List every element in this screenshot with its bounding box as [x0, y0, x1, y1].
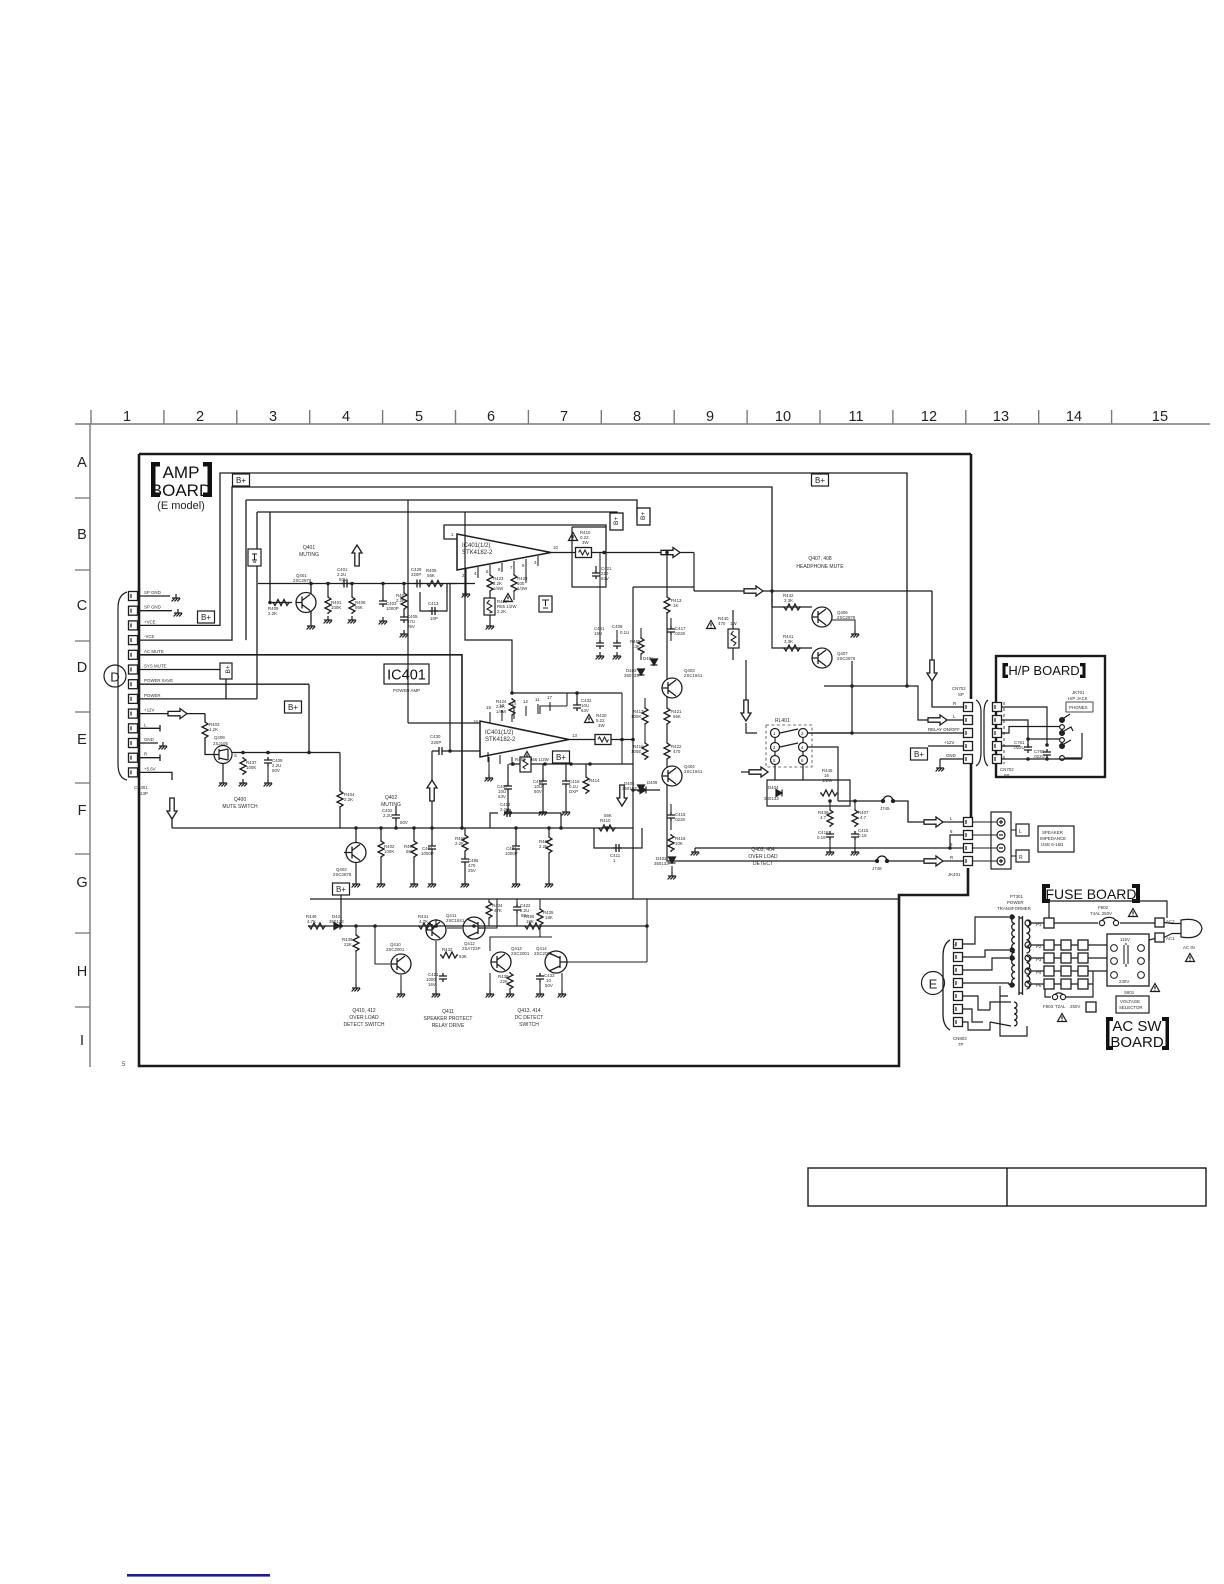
svg-text:4.7K: 4.7K: [419, 919, 428, 924]
svg-text:.0228: .0228: [674, 817, 686, 822]
wire SP GND 1: [138, 595, 170, 597]
svg-text:22K: 22K: [500, 979, 508, 984]
wire hp-relay junction: [824, 686, 963, 720]
pin 12 R: [129, 753, 138, 762]
svg-text:C: C: [77, 598, 87, 614]
svg-text:1/4W: 1/4W: [493, 586, 504, 591]
svg-text:SYS MUTE: SYS MUTE: [144, 664, 167, 669]
svg-text:B: B: [77, 527, 87, 543]
ground C418: [826, 848, 835, 855]
pin 13 +5.6V: [129, 768, 138, 777]
wire R434 col: [488, 899, 490, 926]
svg-text:.0228: .0228: [674, 631, 686, 636]
ground C451: [596, 652, 605, 659]
svg-text:STK4182-2: STK4182-2: [462, 550, 493, 556]
feedback loop R410: [572, 527, 606, 587]
P labels: [1036, 922, 1042, 988]
transformer T301: [1019, 916, 1023, 995]
rotated B+ box 2: [637, 508, 650, 525]
capacitor C429 220P: [414, 580, 423, 588]
wire R out 861: [820, 860, 963, 862]
resistor R402 100K: [380, 828, 382, 840]
R tag box: [1016, 850, 1029, 862]
svg-text:350133: 350133: [329, 919, 344, 924]
svg-text:.022U: .022U: [1033, 754, 1045, 759]
resistor R424 2.2K: [509, 698, 515, 716]
wire arrow to bus: [431, 751, 433, 828]
resistor R435 18K: [537, 908, 543, 926]
B+ box row G: [333, 883, 350, 895]
wire P3 row: [1031, 957, 1107, 959]
diode D402: [669, 857, 676, 863]
svg-text:15U: 15U: [594, 631, 602, 636]
svg-text:B+: B+: [640, 512, 647, 520]
wire R404 drop: [339, 808, 341, 828]
pin 3: [954, 992, 963, 1001]
svg-text:+12V: +12V: [144, 708, 154, 713]
op-amp IC401 1/2 lower: [480, 721, 569, 757]
wire plug: [1164, 923, 1172, 938]
wire R pin: [932, 591, 963, 707]
svg-text:B+: B+: [225, 665, 232, 673]
transistor Q406: [812, 607, 832, 627]
connector CN401 bracket: [118, 592, 127, 780]
resistor R417 100K: [642, 707, 648, 725]
transistor Q414: [545, 951, 567, 973]
B+ label mid: [285, 701, 302, 713]
svg-text:OVER LOAD: OVER LOAD: [748, 854, 778, 860]
resistor R465 2.2K: [548, 828, 550, 836]
wire POWER SAVE: [138, 684, 309, 752]
svg-text:IC401(1/2): IC401(1/2): [462, 543, 490, 549]
wire hp pin3: [1002, 727, 1060, 734]
wire +12V run: [138, 714, 214, 755]
warning small: [504, 594, 513, 602]
svg-text:R410: R410: [600, 818, 611, 823]
bracket CN702 amp: [976, 700, 981, 766]
wire pin1 loop: [444, 525, 606, 553]
HP pins: [993, 703, 1002, 712]
wire R495: [542, 899, 647, 926]
pins: [964, 818, 973, 827]
wire spk R path: [667, 856, 820, 861]
svg-text:2SC2876: 2SC2876: [837, 656, 856, 661]
B+ relay: [911, 748, 928, 760]
boxed icon d1: [539, 596, 552, 612]
title FUSE BOARD: [1042, 884, 1140, 903]
svg-text:9: 9: [706, 409, 714, 425]
wire AC MUTE bus: [138, 655, 462, 828]
diode D403: [638, 669, 645, 675]
ground C403: [379, 617, 388, 624]
svg-text:50V: 50V: [534, 789, 542, 794]
wire Q409 drain: [222, 764, 224, 780]
arrow down R: [927, 660, 937, 681]
pin 5 AC MUTE: [129, 650, 138, 659]
B+ label box on +VCE: [198, 611, 215, 623]
svg-text:Q413, 414: Q413, 414: [517, 1008, 541, 1014]
svg-text:POWER SAVE: POWER SAVE: [144, 678, 173, 683]
resistor R407 2.2K: [403, 584, 405, 593]
svg-text:R: R: [953, 701, 956, 706]
svg-text:2.2K: 2.2K: [455, 841, 464, 846]
svg-text:R: R: [144, 752, 147, 757]
ground Q414: [558, 990, 567, 997]
wire row G 899: [310, 898, 899, 900]
fusible resistor R425: [484, 598, 495, 615]
svg-text:0.18: 0.18: [817, 835, 826, 840]
svg-text:2SC1841: 2SC1841: [684, 769, 703, 774]
arrow L feed: [924, 817, 943, 827]
B+ box lower: [553, 751, 570, 763]
svg-text:2SC2878: 2SC2878: [333, 872, 352, 877]
pin AC2: [1155, 918, 1164, 927]
svg-text:PHONES: PHONES: [1069, 705, 1088, 710]
loop R410b 56K: [594, 828, 642, 848]
pin 9 +12V: [129, 709, 138, 718]
wire hp pin2: [1002, 739, 1060, 748]
resistor R410b: [598, 825, 616, 831]
wire pin outputs join: [514, 572, 526, 600]
wire rail 764: [509, 763, 633, 765]
transformer terminals right: [1025, 920, 1031, 987]
svg-text:D401: D401: [643, 656, 654, 661]
svg-text:T2AL: T2AL: [1055, 1004, 1066, 1009]
wire Q402 emitter: [355, 863, 357, 880]
wire strip to tags: [1011, 830, 1016, 856]
capacitor C484 1000P: [515, 828, 517, 843]
svg-text:16V: 16V: [428, 982, 436, 987]
terminal circles: [997, 818, 1005, 865]
node base: [268, 601, 272, 605]
svg-text:1: 1: [123, 409, 131, 425]
resistor R428 100: [511, 574, 517, 592]
PHONES box: [1066, 702, 1093, 712]
capacitor C401 2.2U: [341, 580, 350, 588]
capacitor C405 47U: [403, 610, 405, 614]
svg-text:2SA723P: 2SA723P: [462, 946, 481, 951]
resistor R408 56K: [351, 584, 353, 597]
svg-text:10P: 10P: [430, 616, 438, 621]
resistor R418 100E: [642, 742, 648, 760]
wire P4 row: [1031, 970, 1107, 972]
svg-text:6: 6: [487, 409, 495, 425]
wire C422 col: [516, 899, 518, 926]
resistor R413 1K: [664, 596, 670, 614]
relay contacts: [771, 729, 808, 765]
speaker impedance box: [1038, 826, 1074, 852]
row letters: [76, 455, 87, 1049]
warning R456: [523, 752, 532, 760]
svg-text:POWER AMP: POWER AMP: [393, 688, 420, 693]
arrow +12V: [168, 709, 187, 719]
svg-text:STK4182-2: STK4182-2: [485, 737, 516, 743]
wire to amp pin1: [447, 584, 457, 593]
svg-text:P2: P2: [1036, 944, 1042, 949]
wire 622 drop: [621, 693, 623, 764]
svg-text:TRANSFORMER: TRANSFORMER: [997, 906, 1031, 911]
svg-text:.022U: .022U: [1013, 745, 1025, 750]
fusible resistor R456: [520, 757, 531, 772]
svg-text:220P: 220P: [411, 572, 421, 577]
wire Q411 area: [436, 919, 474, 928]
wire bus 828: [172, 827, 633, 829]
svg-text:18K: 18K: [545, 915, 553, 920]
svg-text:1/4W: 1/4W: [517, 586, 528, 591]
svg-text:JK701: JK701: [1072, 690, 1085, 695]
pin 1: [954, 1018, 963, 1027]
ground Q401: [307, 622, 316, 629]
wire relay left drop: [775, 765, 803, 780]
svg-text:11: 11: [535, 697, 540, 702]
wire R440 col: [732, 610, 734, 660]
svg-text:D404: D404: [768, 785, 779, 790]
ground SP GND1: [172, 594, 181, 601]
svg-text:AMP: AMP: [163, 463, 200, 482]
svg-text:2.2K: 2.2K: [396, 598, 405, 603]
wire Q401 collector: [310, 584, 312, 595]
svg-text:3: 3: [269, 409, 277, 425]
svg-text:B+: B+: [613, 517, 620, 525]
svg-text:470: 470: [673, 749, 681, 754]
arrow down col 746: [741, 700, 751, 721]
wire col 746: [746, 660, 757, 733]
wire relay in top: [807, 661, 852, 733]
svg-text:GND: GND: [946, 753, 956, 758]
ground C404: [428, 880, 437, 887]
resistor R434 47K: [486, 901, 492, 919]
wire hp pin5: [1002, 707, 1047, 745]
svg-text:115V: 115V: [1120, 937, 1130, 942]
svg-text:OVER LOAD: OVER LOAD: [349, 1015, 379, 1021]
svg-text:2.2K: 2.2K: [539, 844, 548, 849]
capacitor C412: [504, 809, 513, 817]
ground R465: [545, 880, 554, 887]
transformer terminals left: [1010, 915, 1014, 987]
wire hp pin1: [1002, 758, 1082, 760]
svg-text:S801: S801: [1124, 990, 1135, 995]
svg-text:56K: 56K: [355, 605, 363, 610]
terminal strip: [991, 812, 1011, 869]
resistor R442 3.3K: [783, 604, 801, 610]
node out: [631, 738, 635, 742]
ground C408: [613, 652, 622, 659]
svg-text:22K: 22K: [344, 942, 352, 947]
B+ label box top right: [812, 474, 829, 486]
resistor R438 22K: [507, 972, 513, 990]
node hp: [1026, 737, 1030, 741]
ground C409: [264, 779, 273, 786]
wire Q409 right: [232, 753, 340, 791]
pin 6 SYS MUTE: [129, 665, 138, 674]
pin 10 L: [129, 724, 138, 733]
diode D409: [640, 787, 646, 794]
wire mid vertical 408: [407, 500, 409, 723]
svg-text:2SC2878: 2SC2878: [293, 578, 312, 583]
svg-text:10: 10: [775, 409, 791, 425]
svg-text:SPEAKER: SPEAKER: [1042, 830, 1063, 835]
resistor R401 100K: [327, 584, 329, 597]
jumper J745: [880, 796, 896, 803]
svg-text:MUTING: MUTING: [299, 552, 319, 558]
svg-text:4.7: 4.7: [860, 815, 867, 820]
jack contacts: [1060, 714, 1082, 760]
svg-text:VOLTAGE: VOLTAGE: [1120, 999, 1140, 1004]
capacitor C451: [599, 553, 601, 641]
ground Q411: [432, 990, 441, 997]
resistor R403 1.2K: [202, 721, 208, 739]
capacitor C761: [1024, 744, 1032, 753]
warning R440: [707, 621, 716, 629]
resistor R495 18K: [524, 923, 542, 929]
svg-text:Q400: Q400: [234, 797, 246, 803]
ruler numbers: [123, 409, 1168, 425]
signal labels: [950, 816, 953, 860]
wire SP GND 2: [138, 610, 172, 612]
svg-text:SELECTOR: SELECTOR: [1119, 1005, 1143, 1010]
wire mid vertical 465: [465, 512, 512, 693]
svg-text:R414: R414: [589, 778, 600, 783]
svg-text:Q401: Q401: [303, 545, 315, 551]
svg-text:IMPEDANCE: IMPEDANCE: [1040, 836, 1066, 841]
title AC SW BOARD: [1106, 1017, 1169, 1051]
svg-text:63V: 63V: [581, 708, 589, 713]
wire gnd 848: [695, 835, 963, 848]
H/P board outline: [996, 656, 1105, 777]
svg-text:I: I: [80, 1033, 84, 1049]
ground Q413: [486, 990, 495, 997]
ground R405: [410, 880, 419, 887]
wire Q402 base: [344, 828, 356, 853]
resistor R431 4.7K: [418, 923, 436, 929]
svg-text:P4: P4: [1036, 970, 1042, 975]
svg-text:8: 8: [633, 409, 641, 425]
wire P1 row: [1031, 922, 1155, 924]
svg-text:14: 14: [1066, 409, 1082, 425]
svg-text:+5.6V: +5.6V: [144, 766, 156, 771]
ground amp pin2: [462, 590, 471, 597]
arrow output R: [661, 548, 680, 558]
voltage selector: [1107, 934, 1149, 986]
wire GND pin11: [138, 742, 158, 744]
svg-text:2SC1841: 2SC1841: [446, 918, 465, 923]
wires pins to strip: [972, 822, 997, 861]
wire L stub: [138, 725, 160, 732]
svg-text:R432: R432: [442, 947, 453, 952]
svg-text:456 1/2W: 456 1/2W: [530, 757, 550, 762]
pin 7: [954, 940, 963, 949]
arrow down at 621: [617, 785, 627, 806]
ground Q402: [352, 880, 361, 887]
svg-text:50V: 50V: [545, 983, 553, 988]
left scale line: [89, 424, 91, 1067]
svg-text:3W: 3W: [598, 723, 605, 728]
grid marker D circle: [104, 665, 126, 687]
wire base feed: [270, 512, 292, 603]
svg-text:AC SW: AC SW: [1112, 1018, 1162, 1035]
wire input verticals: [449, 584, 451, 752]
svg-text:56K: 56K: [427, 573, 435, 578]
left scale ticks: [75, 498, 90, 1007]
arrow hp feed: [744, 586, 763, 596]
pin 4 -VCE: [129, 636, 138, 645]
svg-text:50V: 50V: [272, 768, 280, 773]
svg-text:7P: 7P: [958, 1042, 963, 1047]
wire B+ bus L1: [138, 473, 907, 686]
wire B+ drop: [340, 895, 342, 926]
svg-text:F802: F802: [1098, 905, 1109, 910]
capacitor C408: [613, 640, 621, 649]
wire hp base R: [772, 607, 812, 648]
svg-text:CN702: CN702: [1000, 767, 1014, 772]
ruler top line: [75, 423, 1210, 425]
svg-text:56K: 56K: [604, 813, 612, 818]
pin 8 POWER: [129, 694, 138, 703]
wire AC1: [1149, 939, 1155, 962]
amp upper pins: [466, 556, 538, 590]
matrix squares: [1044, 918, 1096, 1012]
warning R410: [569, 533, 578, 541]
ground R408: [348, 616, 357, 623]
svg-text:53K: 53K: [459, 954, 467, 959]
pin 5: [954, 966, 963, 975]
ground D402: [668, 872, 677, 879]
capacitor C485 470: [464, 852, 466, 856]
wire bus L2: [138, 487, 772, 640]
diode D405: [638, 785, 645, 791]
svg-text:2.2K: 2.2K: [268, 611, 277, 616]
svg-text:JK401: JK401: [948, 872, 961, 877]
aux winding: [1014, 1002, 1017, 1026]
resistor R405 56K: [413, 828, 415, 840]
svg-text:4: 4: [342, 409, 350, 425]
wire Q413-Q414 loop: [490, 926, 647, 962]
wire Q410 base: [375, 926, 390, 964]
svg-text:230V: 230V: [1119, 979, 1129, 984]
AMP BOARD title bracket right: [203, 462, 212, 497]
capacitor C422: [513, 904, 521, 913]
svg-text:2SC2878: 2SC2878: [837, 615, 856, 620]
transistor Q412: [463, 917, 485, 939]
svg-text:56K: 56K: [406, 849, 414, 854]
wire bus L3: [246, 500, 637, 640]
svg-text:SWITCH: SWITCH: [519, 1022, 539, 1028]
signal labels: [928, 701, 960, 758]
svg-text:50V: 50V: [339, 577, 347, 582]
wire 633 down to row G: [632, 828, 634, 899]
svg-text:12: 12: [921, 409, 937, 425]
wire h 587: [633, 586, 694, 588]
svg-text:250V: 250V: [1070, 1004, 1080, 1009]
warning F803: [1058, 1014, 1067, 1022]
node output: [602, 551, 606, 555]
svg-text:12: 12: [523, 699, 528, 704]
resistor R407b 4.7: [852, 809, 858, 827]
wire bottom loop: [1045, 984, 1093, 997]
svg-text:DETECT: DETECT: [753, 861, 773, 867]
capacitor C418: [826, 831, 834, 840]
wire lower output: [569, 740, 633, 829]
svg-text:IC401: IC401: [387, 668, 426, 684]
capacitor C760: [1043, 749, 1051, 758]
svg-text:T4AL,250V: T4AL,250V: [1090, 911, 1112, 916]
svg-text:Q402: Q402: [385, 795, 397, 801]
svg-text:11: 11: [848, 409, 863, 425]
svg-text:SP GND: SP GND: [144, 605, 161, 610]
svg-text:R: R: [1019, 855, 1023, 861]
svg-text:C408: C408: [612, 624, 623, 629]
ground R438: [506, 990, 515, 997]
